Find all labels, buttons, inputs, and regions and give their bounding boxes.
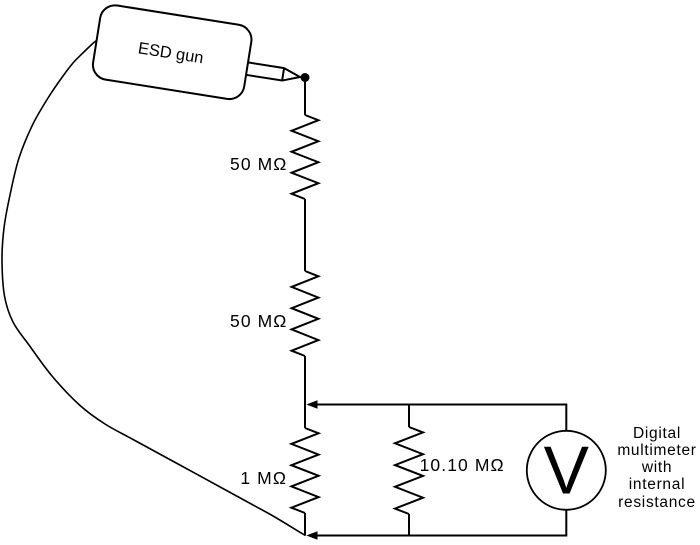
- label R4 value 10.10 Mohm: [420, 455, 505, 476]
- wire: top horizontal from node B to voltmeter: [310, 404, 566, 406]
- wire: R3 to bottom node: [304, 513, 306, 536]
- wire: R4 to bottom wire: [408, 514, 410, 536]
- label R1 value 50 Mohm: [230, 154, 288, 175]
- resistor R3 1 Mohm: [291, 428, 318, 513]
- resistor R1 50 Mohm: [292, 115, 319, 199]
- wire: tip dot to R1: [304, 78, 306, 116]
- label R3 value 1 Mohm: [240, 468, 287, 489]
- ESD gun body U1: [91, 3, 307, 109]
- resistor R4 10.10 Mohm: [395, 427, 423, 514]
- label voltmeter description: [587, 425, 700, 511]
- label R2 value 50 Mohm: [230, 311, 288, 332]
- node A: discharge tip dot: [301, 73, 310, 82]
- resistor R2 50 Mohm: [292, 271, 319, 356]
- wire: R1 to R2: [304, 199, 306, 271]
- wire: curved ground return from ESD gun to bottom node: [2, 41, 306, 536]
- wire: R2 through node B to R3: [304, 356, 306, 428]
- wire: bottom horizontal from voltmeter to bottom node: [310, 535, 566, 537]
- wire: voltmeter top lead: [565, 404, 567, 432]
- wire: branch down to R4: [408, 405, 410, 428]
- svg-text:V: V: [544, 433, 590, 509]
- ESD gun nozzle: [245, 62, 301, 83]
- arrowhead into node B: [306, 400, 317, 408]
- arrowhead into bottom node: [306, 531, 317, 539]
- wire: voltmeter bottom lead: [565, 510, 567, 537]
- voltmeter M1 circle: [527, 431, 606, 510]
